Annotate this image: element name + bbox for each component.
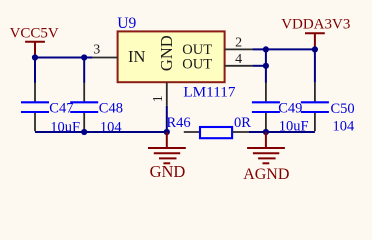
svg-text:LM1117: LM1117: [183, 84, 235, 101]
capacitor C48: [70, 83, 98, 132]
wire pin2 to VDDA node: [252, 48, 315, 50]
svg-text:U9: U9: [117, 15, 136, 32]
junction node VCC5V: [32, 54, 38, 60]
svg-text:R46: R46: [167, 115, 191, 131]
ground AGND: [247, 132, 285, 163]
wire C47 branch vertical upper: [34, 58, 36, 83]
wire pin4 to C49 branch: [252, 65, 266, 67]
sheet background: [0, 0, 372, 189]
wire bottom right rail: [266, 131, 315, 133]
ground GND: [148, 132, 186, 163]
capacitor C49: [252, 83, 280, 132]
pin 2 line: [225, 48, 253, 50]
svg-text:1: 1: [151, 95, 166, 102]
resistor R46: [184, 127, 266, 138]
pin 3 line: [93, 57, 118, 59]
svg-text:C47: C47: [49, 100, 73, 116]
svg-text:3: 3: [93, 42, 100, 57]
wire C50 branch vertical: [314, 49, 316, 82]
svg-text:10uF: 10uF: [50, 119, 80, 135]
svg-text:C50: C50: [331, 101, 355, 117]
svg-text:104: 104: [100, 119, 123, 135]
svg-text:C48: C48: [99, 100, 123, 116]
junction node AGND: [263, 129, 269, 135]
svg-text:IN: IN: [128, 47, 145, 66]
svg-text:104: 104: [333, 119, 356, 135]
junction node C48 bottom: [81, 129, 87, 135]
junction node pin2/C49: [263, 46, 269, 52]
junction node C48 top: [81, 54, 87, 60]
svg-text:GND: GND: [150, 162, 186, 181]
junction node pin4: [263, 63, 269, 69]
regulator U9 body: [118, 31, 225, 82]
wire top rail VCC5V node to pin3: [35, 57, 93, 59]
svg-text:2: 2: [235, 35, 242, 50]
svg-text:4: 4: [235, 52, 242, 67]
svg-text:OUT: OUT: [182, 56, 212, 72]
wire C48 branch vertical upper: [83, 58, 85, 83]
junction node GND: [164, 129, 170, 135]
svg-text:10uF: 10uF: [279, 119, 309, 135]
wire C49 branch vertical: [265, 49, 267, 82]
wire GND pin lower segment: [166, 106, 168, 132]
pin 1 line GND pin: [166, 82, 168, 106]
svg-text:AGND: AGND: [243, 166, 289, 183]
svg-text:GND: GND: [157, 35, 176, 71]
svg-text:VDDA3V3: VDDA3V3: [281, 17, 350, 33]
junction node VDDA3V3: [312, 46, 318, 52]
wire bottom left rail: [35, 131, 167, 133]
svg-text:C49: C49: [278, 101, 302, 117]
power symbol VDDA3V3: [305, 33, 325, 49]
capacitor C50: [301, 82, 329, 131]
power symbol VCC5V: [25, 42, 45, 57]
svg-text:0R: 0R: [234, 115, 251, 131]
capacitor C47: [21, 83, 49, 132]
svg-text:VCC5V: VCC5V: [10, 26, 59, 42]
pin 4 line: [225, 65, 253, 67]
